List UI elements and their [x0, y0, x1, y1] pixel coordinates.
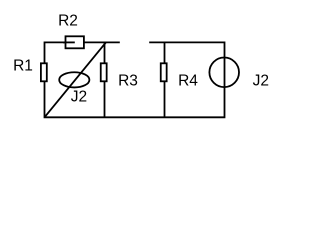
svg-text:R4: R4	[178, 72, 198, 89]
wire: R4 branch vertical	[164, 42, 166, 117]
svg-text:R1: R1	[13, 58, 33, 75]
svg-text:R2: R2	[58, 12, 78, 29]
wire: stub into R2 body	[63, 41, 75, 43]
resistor R2 (horizontal, on top wire)	[66, 36, 84, 48]
wire: left loop (top stub, left side, bottom rail, right side, right stub)	[45, 42, 225, 117]
resistor R1	[41, 63, 47, 81]
source J2 (ellipse on diagonal)	[59, 72, 89, 87]
svg-text:J2: J2	[253, 73, 269, 90]
wire: diagonal through source J2	[45, 42, 106, 117]
resistor R3	[101, 63, 107, 81]
source J2 (circle, right branch)	[209, 58, 239, 88]
resistor R4	[161, 63, 167, 81]
svg-text:R3: R3	[118, 72, 138, 89]
wire: R3 branch vertical	[104, 42, 106, 117]
svg-text:J2: J2	[71, 88, 87, 105]
